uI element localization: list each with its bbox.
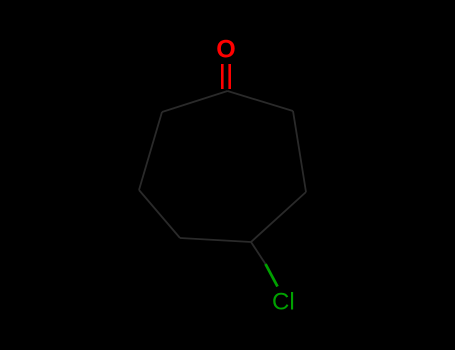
wire ring bond C1-C2 (162, 91, 228, 112)
wire C=O double bond line right (228, 64, 231, 89)
wire C5-Cl bond chlorine half (266, 264, 278, 287)
wire ring bond C6-C7 (293, 111, 306, 192)
wire ring bond C5-C6 (251, 192, 306, 242)
wire ring bond C2-C3 (139, 112, 162, 190)
wire ring bond C4-C5 (180, 238, 251, 242)
wire C=O double bond line left (221, 64, 224, 89)
wire ring bond C7-C1 (228, 91, 294, 111)
svg-text:O: O (216, 36, 235, 64)
wire ring bond C3-C4 (139, 190, 180, 238)
wire C5-Cl bond carbon half (251, 242, 266, 264)
svg-text:Cl: Cl (272, 289, 295, 316)
